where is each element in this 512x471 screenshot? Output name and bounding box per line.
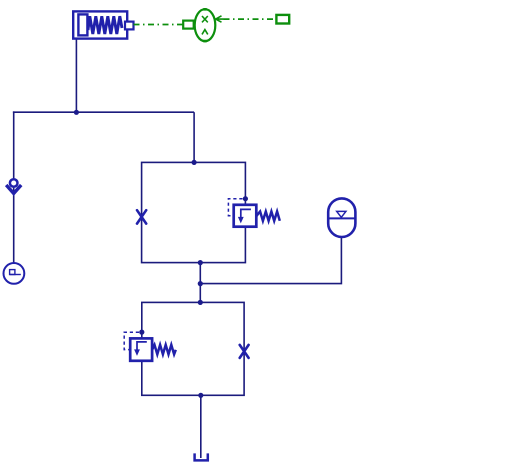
wire loop1 rectangle bbox=[142, 162, 246, 262]
wire accumulator branch bbox=[200, 237, 341, 284]
wire loop2 rectangle bbox=[142, 302, 244, 395]
mechanical link dash-dot (cylinder rod to mass) bbox=[134, 24, 184, 26]
relief valve RV2 pilot line bbox=[124, 332, 139, 349]
mass load element (green) bbox=[183, 9, 215, 41]
relief valve RV1 bbox=[234, 205, 257, 227]
wire right branch down to loop1 bbox=[193, 112, 195, 162]
wire loop1 bottom to node B bbox=[199, 263, 201, 303]
signal link dash-dot bbox=[224, 18, 277, 20]
junction node loop2 top bbox=[198, 300, 203, 305]
wire horizontal top manifold bbox=[13, 111, 194, 113]
junction node RV2 inlet bbox=[139, 330, 144, 335]
wire from cylinder port down bbox=[75, 39, 77, 113]
junction node loop1 top bbox=[192, 160, 197, 165]
orifice O2 (loop2 right) bbox=[240, 345, 249, 358]
relief valve RV1 spring bbox=[256, 212, 280, 221]
accumulator bbox=[328, 198, 355, 237]
orifice O1 (loop1 left) bbox=[137, 210, 146, 223]
junction node top manifold bbox=[74, 110, 79, 115]
junction node RV1 inlet bbox=[243, 196, 248, 201]
relief valve RV2 bbox=[130, 338, 152, 360]
tank bbox=[195, 453, 208, 460]
junction node loop2 bottom bbox=[198, 393, 203, 398]
relief valve RV2 spring bbox=[152, 345, 176, 355]
signal source block bbox=[276, 15, 289, 24]
pressure source P bbox=[4, 263, 25, 284]
junction node accumulator tee bbox=[198, 281, 203, 286]
junction node loop1 bottom bbox=[198, 260, 203, 265]
wire left branch down to pressure source bbox=[13, 111, 15, 262]
hydraulic cylinder with spring return bbox=[73, 11, 133, 38]
check valve (ball and seat) bbox=[6, 179, 21, 193]
relief valve RV1 pilot line bbox=[228, 199, 242, 216]
signal arrow into mass bbox=[216, 16, 224, 22]
wire loop2 bottom to tank bbox=[200, 395, 202, 458]
